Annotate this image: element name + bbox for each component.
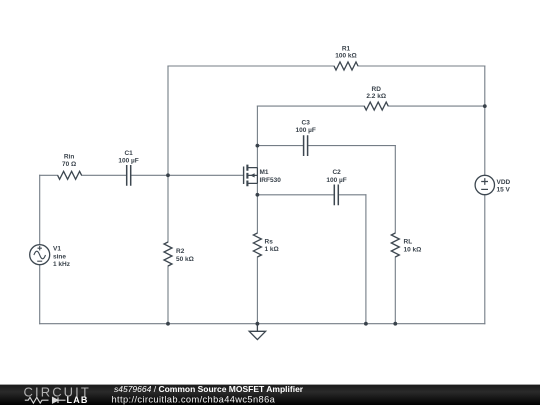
svg-text:1 kΩ: 1 kΩ: [265, 246, 279, 253]
voltage source V1: [30, 245, 50, 265]
wire top loop R1: [168, 65, 485, 67]
svg-text:C3: C3: [302, 120, 311, 127]
wire right vertical VDD: [484, 66, 486, 324]
svg-text:50 kΩ: 50 kΩ: [176, 256, 194, 263]
svg-text:s4579664 / Common Source MOSFE: s4579664 / Common Source MOSFET Amplifie…: [114, 384, 304, 394]
svg-text:100 µF: 100 µF: [118, 157, 138, 164]
svg-text:R1: R1: [342, 46, 351, 53]
svg-text:10 kΩ: 10 kΩ: [404, 247, 422, 254]
wire bottom rail: [40, 323, 485, 325]
resistor RL: [391, 233, 399, 257]
resistor R2: [164, 242, 172, 266]
svg-text:http://circuitlab.com/chba44wc: http://circuitlab.com/chba44wc5n86a: [112, 394, 276, 404]
resistor Rin: [58, 171, 82, 179]
wire RD loop: [257, 105, 484, 107]
svg-text:M1: M1: [260, 169, 269, 176]
svg-text:C1: C1: [124, 150, 133, 157]
svg-text:RL: RL: [404, 239, 413, 246]
capacitor C2: [334, 185, 338, 206]
ground: [249, 324, 265, 340]
svg-text:100 µF: 100 µF: [296, 127, 316, 134]
logo squiggle: [25, 397, 66, 403]
svg-text:15 V: 15 V: [497, 187, 511, 194]
svg-text:Rin: Rin: [64, 154, 75, 161]
transistor M1 (NMOS): [244, 165, 258, 187]
wire source vertical: [256, 183, 258, 323]
wire left vertical V1 branch: [39, 175, 41, 323]
svg-text:sine: sine: [53, 253, 66, 260]
svg-text:LAB: LAB: [67, 395, 89, 405]
capacitor C1: [127, 165, 131, 186]
wire R2 branch vertical: [167, 66, 169, 324]
svg-text:V1: V1: [53, 246, 61, 253]
svg-text:C2: C2: [332, 169, 341, 176]
wire C3 branch: [257, 145, 395, 147]
wire main input horizontal: [40, 174, 244, 176]
svg-text:Rs: Rs: [265, 239, 274, 246]
resistor RD: [364, 102, 388, 110]
resistor R1: [334, 62, 358, 70]
svg-text:100 kΩ: 100 kΩ: [335, 53, 356, 60]
wire RL vertical: [394, 146, 396, 324]
svg-text:70 Ω: 70 Ω: [62, 161, 76, 168]
svg-text:1 kHz: 1 kHz: [53, 261, 71, 268]
resistor Rs: [253, 233, 261, 257]
svg-text:IRF530: IRF530: [260, 177, 282, 184]
capacitor C3: [304, 135, 308, 156]
svg-text:100 µF: 100 µF: [326, 177, 346, 184]
svg-text:R2: R2: [176, 248, 185, 255]
wire C2 branch: [257, 194, 366, 196]
wire C2 drop vertical: [365, 195, 367, 324]
voltage source VDD: [475, 175, 494, 194]
svg-text:2.2 kΩ: 2.2 kΩ: [366, 93, 386, 100]
wire drain vertical: [256, 106, 258, 168]
svg-text:VDD: VDD: [497, 179, 511, 186]
